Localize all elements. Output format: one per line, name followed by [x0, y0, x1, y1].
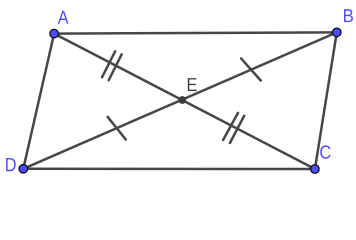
- point D: [19, 165, 28, 174]
- label A: [58, 11, 69, 24]
- point C: [311, 165, 320, 174]
- wire side AB: [54, 32, 337, 33]
- tick mark 2 on AE: [109, 54, 122, 80]
- wire diagonal BD: [23, 32, 337, 168]
- label C: [320, 145, 330, 158]
- tick mark 2 on EC: [230, 116, 244, 143]
- label B: [344, 9, 353, 22]
- label D: [6, 158, 16, 171]
- tick mark 1 on AE: [102, 51, 115, 77]
- wire side DA: [23, 34, 54, 169]
- point A: [50, 29, 59, 38]
- point E: [178, 96, 186, 104]
- label E: [188, 78, 197, 91]
- tick mark 1 on EC: [223, 113, 238, 140]
- point B: [333, 28, 342, 37]
- tick mark on DE: [108, 117, 126, 140]
- wire side CD: [23, 168, 315, 171]
- wire side BC: [315, 32, 337, 169]
- tick mark on EB: [241, 58, 261, 80]
- wire diagonal AC: [54, 34, 315, 169]
